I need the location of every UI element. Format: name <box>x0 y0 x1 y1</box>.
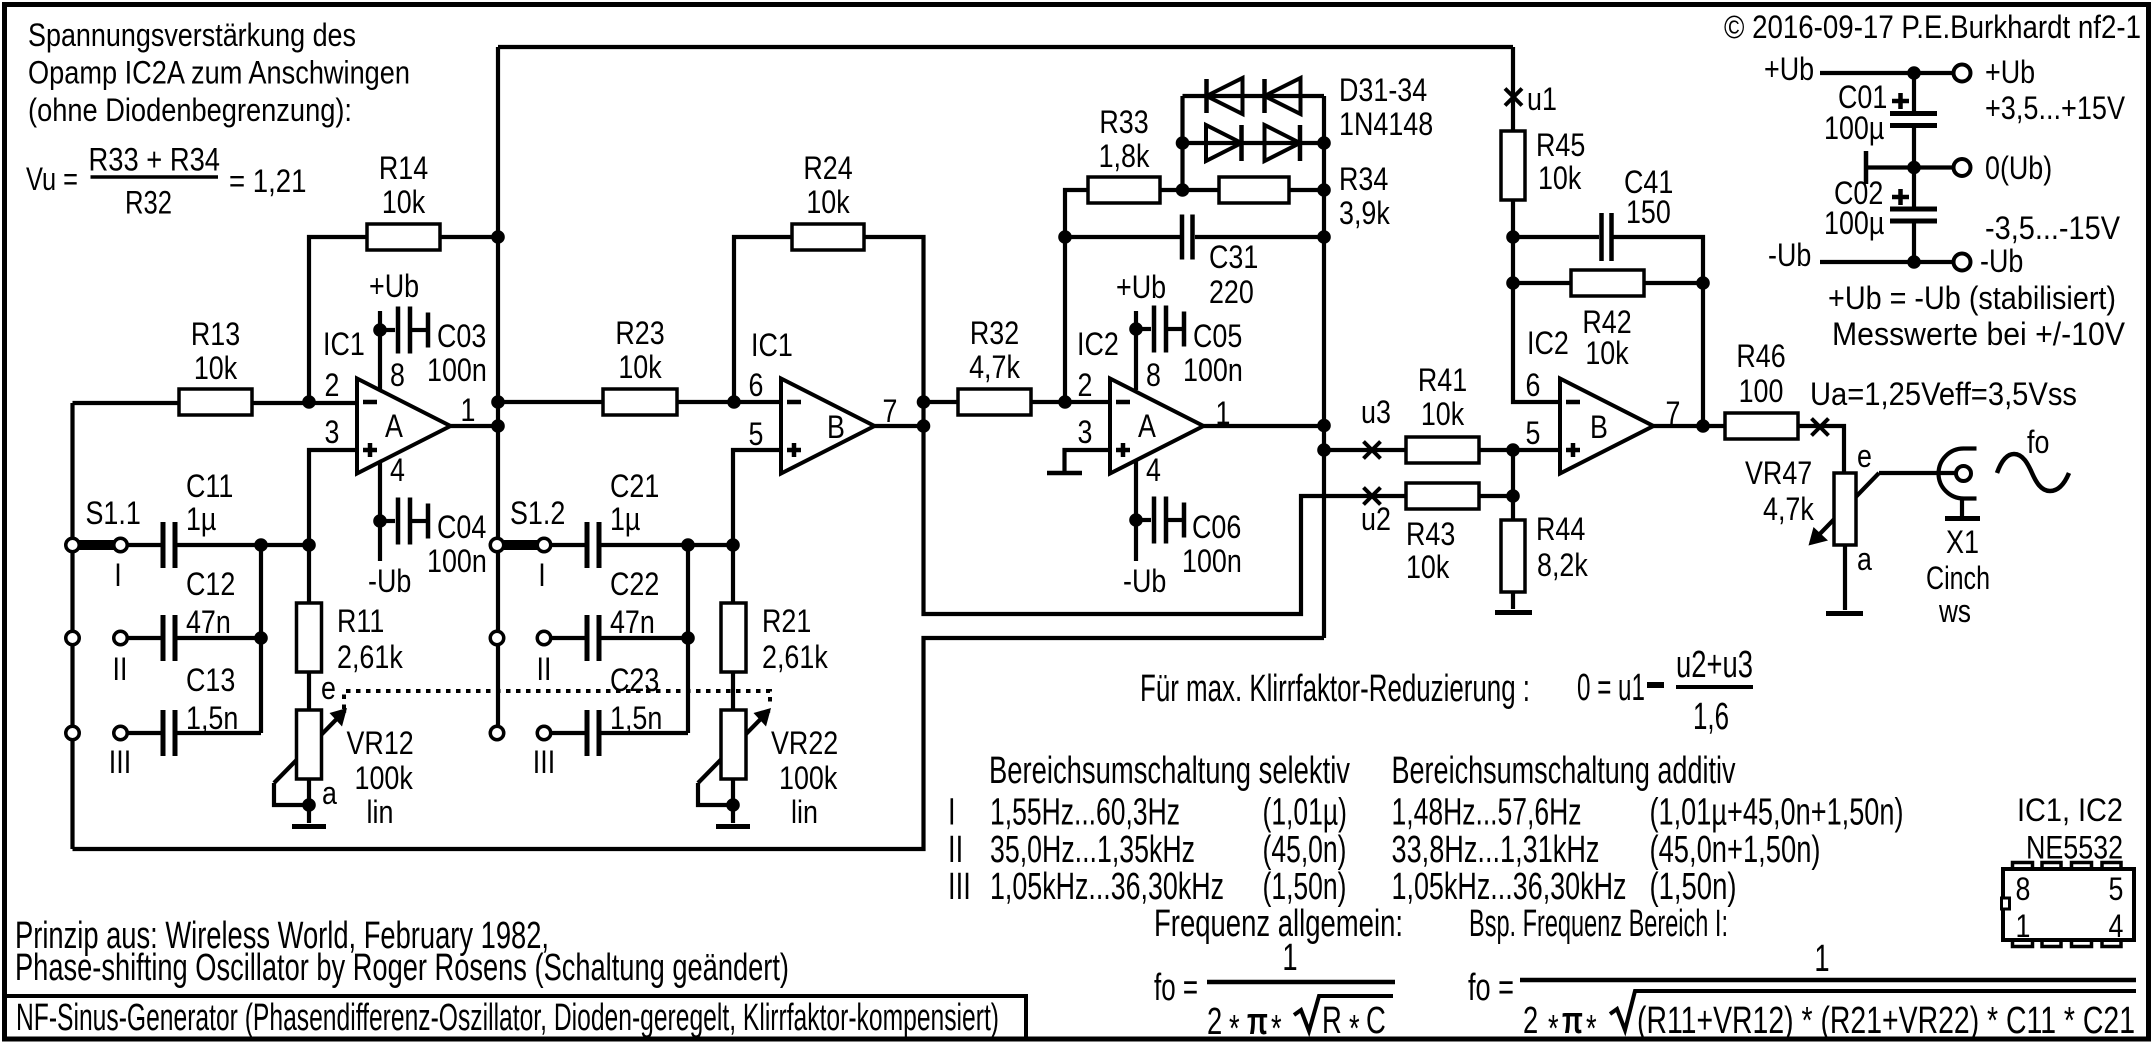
svg-text:fo =: fo = <box>1154 967 1198 1009</box>
svg-text:R46: R46 <box>1736 338 1785 374</box>
svg-text:Bereichsumschaltung selektiv: Bereichsumschaltung selektiv <box>989 750 1350 792</box>
svg-text:-Ub: -Ub <box>368 563 411 599</box>
svg-text:VR22: VR22 <box>771 725 838 761</box>
svg-text:π: π <box>1247 1001 1268 1042</box>
svg-text:2: 2 <box>1207 1001 1222 1042</box>
svg-text:ws: ws <box>1938 593 1971 629</box>
svg-text:e: e <box>1857 438 1872 474</box>
svg-text:100n: 100n <box>1183 352 1243 388</box>
svg-text:III: III <box>109 744 131 780</box>
svg-text:1µ: 1µ <box>610 501 640 537</box>
svg-text:5: 5 <box>1526 415 1541 451</box>
svg-text:C05: C05 <box>1193 318 1242 354</box>
svg-text:C31: C31 <box>1209 239 1258 275</box>
svg-text:10k: 10k <box>382 184 426 220</box>
svg-text:R23: R23 <box>615 315 664 351</box>
svg-text:© 2016-09-17 P.E.Burkhardt nf2: © 2016-09-17 P.E.Burkhardt nf2-1 <box>1724 9 2141 45</box>
svg-text:1: 1 <box>1216 395 1231 431</box>
svg-text:R33: R33 <box>1099 104 1148 140</box>
svg-text:+Ub: +Ub <box>1764 51 1814 87</box>
svg-text:10k: 10k <box>806 184 850 220</box>
svg-text:1,6: 1,6 <box>1693 696 1729 738</box>
svg-text:R32: R32 <box>970 315 1019 351</box>
svg-text:(1,50n): (1,50n) <box>1650 866 1737 908</box>
svg-text:S1.2: S1.2 <box>510 495 565 531</box>
svg-text:R45: R45 <box>1536 127 1585 163</box>
svg-text:(45,0n+1,50n): (45,0n+1,50n) <box>1650 829 1821 871</box>
svg-text:8: 8 <box>1146 357 1161 393</box>
svg-text:*: * <box>1586 1008 1597 1042</box>
svg-text:2: 2 <box>1523 1000 1538 1042</box>
svg-text:1: 1 <box>1282 937 1297 979</box>
svg-text:(1,01µ+45,0n+1,50n): (1,01µ+45,0n+1,50n) <box>1650 792 1904 834</box>
svg-text:8,2k: 8,2k <box>1537 547 1589 583</box>
svg-text:2: 2 <box>325 367 340 403</box>
svg-text:5: 5 <box>2109 871 2124 907</box>
svg-text:(1,50n): (1,50n) <box>1263 866 1347 908</box>
svg-text:Bsp. Frequenz Bereich I:: Bsp. Frequenz Bereich I: <box>1469 903 1728 945</box>
svg-text:1: 1 <box>461 392 476 428</box>
svg-text:C04: C04 <box>437 509 486 545</box>
svg-text:3: 3 <box>1078 414 1093 450</box>
svg-text:-Ub: -Ub <box>1980 243 2023 279</box>
svg-text:u2+u3: u2+u3 <box>1676 644 1753 686</box>
svg-text:R11: R11 <box>337 603 384 639</box>
svg-text:1,05kHz...36,30kHz: 1,05kHz...36,30kHz <box>990 866 1224 908</box>
svg-text:C13: C13 <box>186 662 235 698</box>
svg-text:fo: fo <box>2027 424 2049 460</box>
svg-text:47n: 47n <box>186 604 231 640</box>
svg-text:1N4148: 1N4148 <box>1339 106 1433 142</box>
svg-text:C11: C11 <box>186 468 233 504</box>
svg-text:-Ub: -Ub <box>1768 237 1811 273</box>
svg-text:1: 1 <box>2016 908 2031 944</box>
svg-text:6: 6 <box>1526 367 1541 403</box>
svg-text:VR47: VR47 <box>1745 455 1812 491</box>
svg-text:VR12: VR12 <box>347 725 414 761</box>
svg-text:fo =: fo = <box>1468 967 1514 1009</box>
svg-text:u3: u3 <box>1361 394 1391 430</box>
svg-text:(1,01µ): (1,01µ) <box>1263 792 1348 834</box>
svg-text:R34: R34 <box>1339 161 1388 197</box>
svg-text:R21: R21 <box>762 603 811 639</box>
svg-text:S1.1: S1.1 <box>86 495 141 531</box>
svg-text:*: * <box>1271 1008 1282 1042</box>
svg-text:R41: R41 <box>1418 362 1467 398</box>
svg-text:Cinch: Cinch <box>1926 560 1990 596</box>
svg-text:1,55Hz...60,3Hz: 1,55Hz...60,3Hz <box>990 792 1180 834</box>
svg-text:10k: 10k <box>618 349 662 385</box>
svg-text:π: π <box>1562 1000 1583 1042</box>
svg-text:Messwerte bei +/-10V: Messwerte bei +/-10V <box>1832 316 2126 352</box>
svg-text:10k: 10k <box>1585 335 1629 371</box>
svg-text:I: I <box>948 792 956 834</box>
svg-text:+Ub: +Ub <box>1985 54 2035 90</box>
svg-text:4,7k: 4,7k <box>1763 491 1815 527</box>
svg-text:4: 4 <box>1146 452 1161 488</box>
svg-text:A: A <box>385 408 403 444</box>
svg-text:III: III <box>533 744 555 780</box>
svg-text:+3,5...+15V: +3,5...+15V <box>1985 90 2126 126</box>
svg-text:C22: C22 <box>610 566 659 602</box>
svg-text:3: 3 <box>325 414 340 450</box>
svg-text:R33 + R34: R33 + R34 <box>89 142 221 178</box>
svg-text:100µ: 100µ <box>1824 205 1884 241</box>
svg-text:0 = u1: 0 = u1 <box>1577 667 1645 709</box>
svg-text:III: III <box>948 866 971 908</box>
svg-text:C06: C06 <box>1192 509 1241 545</box>
svg-text:Opamp IC2A zum Anschwingen: Opamp IC2A zum Anschwingen <box>28 55 410 91</box>
svg-text:B: B <box>1590 409 1608 445</box>
svg-text:Spannungsverstärkung des: Spannungsverstärkung des <box>28 17 356 53</box>
svg-text:10k: 10k <box>1421 396 1465 432</box>
svg-text:A: A <box>1138 408 1156 444</box>
svg-text:1,5n: 1,5n <box>186 700 238 736</box>
svg-text:10k: 10k <box>194 350 238 386</box>
svg-text:100n: 100n <box>1182 543 1242 579</box>
svg-text:1,8k: 1,8k <box>1099 138 1151 174</box>
svg-text:a: a <box>1857 541 1872 577</box>
svg-text:1: 1 <box>1814 938 1829 980</box>
svg-text:3,9k: 3,9k <box>1339 195 1391 231</box>
svg-text:C21: C21 <box>610 468 659 504</box>
svg-text:10k: 10k <box>1406 549 1450 585</box>
svg-text:4,7k: 4,7k <box>969 349 1021 385</box>
svg-text:100k: 100k <box>779 760 838 796</box>
svg-text:R24: R24 <box>803 150 852 186</box>
svg-text:IC1: IC1 <box>751 327 793 363</box>
svg-text:R13: R13 <box>191 316 240 352</box>
svg-text:C23: C23 <box>610 662 659 698</box>
svg-text:I: I <box>538 557 546 593</box>
svg-text:*: * <box>1229 1008 1240 1042</box>
svg-text:150: 150 <box>1626 194 1671 230</box>
svg-text:2,61k: 2,61k <box>337 639 404 675</box>
svg-text:1,5n: 1,5n <box>610 700 662 736</box>
svg-text:IC1, IC2: IC1, IC2 <box>2017 792 2123 828</box>
svg-text:1,05kHz...36,30kHz: 1,05kHz...36,30kHz <box>1392 866 1627 908</box>
svg-text:35,0Hz...1,35kHz: 35,0Hz...1,35kHz <box>990 829 1195 871</box>
svg-text:II: II <box>113 651 128 687</box>
svg-text:Ua=1,25Veff=3,5Vss: Ua=1,25Veff=3,5Vss <box>1810 376 2077 412</box>
svg-text:8: 8 <box>2016 871 2031 907</box>
svg-text:+Ub = -Ub (stabilisiert): +Ub = -Ub (stabilisiert) <box>1828 280 2116 316</box>
svg-text:-3,5...-15V: -3,5...-15V <box>1985 210 2121 246</box>
svg-text:7: 7 <box>1666 395 1681 431</box>
svg-text:33,8Hz...1,31kHz: 33,8Hz...1,31kHz <box>1392 829 1600 871</box>
svg-text:Phase-shifting Oscillator by R: Phase-shifting Oscillator by Roger Rosen… <box>15 947 789 989</box>
svg-text:II: II <box>948 829 963 871</box>
svg-text:100n: 100n <box>427 352 487 388</box>
svg-text:1µ: 1µ <box>186 501 216 537</box>
svg-text:0(Ub): 0(Ub) <box>1985 150 2052 186</box>
svg-text:I: I <box>114 557 122 593</box>
svg-text:*: * <box>1349 1008 1360 1042</box>
svg-text:lin: lin <box>791 794 818 830</box>
svg-text:7: 7 <box>883 393 898 429</box>
svg-text:NF-Sinus-Generator (Phasendiff: NF-Sinus-Generator (Phasendifferenz-Oszi… <box>16 997 999 1039</box>
svg-text:Vu =: Vu = <box>26 161 78 197</box>
svg-text:IC2: IC2 <box>1527 325 1569 361</box>
svg-text:D31-34: D31-34 <box>1339 72 1427 108</box>
svg-text:R44: R44 <box>1536 511 1585 547</box>
svg-text:2,61k: 2,61k <box>762 639 829 675</box>
svg-text:NE5532: NE5532 <box>2026 830 2123 866</box>
svg-text:4: 4 <box>390 452 405 488</box>
svg-text:100n: 100n <box>427 543 487 579</box>
svg-text:R32: R32 <box>125 185 172 221</box>
svg-text:lin: lin <box>367 794 394 830</box>
svg-text:8: 8 <box>390 357 405 393</box>
svg-text:X1: X1 <box>1946 524 1979 560</box>
svg-text:IC1: IC1 <box>323 326 365 362</box>
svg-text:2: 2 <box>1078 367 1093 403</box>
svg-text:Bereichsumschaltung additiv: Bereichsumschaltung additiv <box>1392 750 1736 792</box>
svg-text:47n: 47n <box>610 604 655 640</box>
svg-text:10k: 10k <box>1538 160 1582 196</box>
svg-text:IC2: IC2 <box>1077 326 1119 362</box>
svg-text:220: 220 <box>1209 274 1254 310</box>
svg-text:5: 5 <box>749 416 764 452</box>
svg-text:C03: C03 <box>437 318 486 354</box>
svg-text:II: II <box>537 651 552 687</box>
svg-text:(ohne Diodenbegrenzung):: (ohne Diodenbegrenzung): <box>28 92 352 128</box>
svg-text:(45,0n): (45,0n) <box>1263 829 1347 871</box>
svg-text:C12: C12 <box>186 566 235 602</box>
svg-text:6: 6 <box>749 367 764 403</box>
svg-text:B: B <box>827 409 845 445</box>
svg-text:*: * <box>1548 1008 1559 1042</box>
svg-text:R14: R14 <box>379 150 428 186</box>
svg-text:100k: 100k <box>355 760 414 796</box>
svg-text:100: 100 <box>1739 373 1784 409</box>
svg-text:C: C <box>1366 1000 1386 1042</box>
svg-text:(R11+VR12) * (R21+VR22) * C11: (R11+VR12) * (R21+VR22) * C11 * C21 <box>1637 1000 2135 1042</box>
svg-text:R: R <box>1322 1000 1342 1042</box>
svg-text:R43: R43 <box>1406 516 1455 552</box>
svg-text:100µ: 100µ <box>1824 110 1884 146</box>
svg-text:+Ub: +Ub <box>369 268 419 304</box>
svg-text:u2: u2 <box>1361 501 1391 537</box>
svg-text:Für max. Klirrfaktor-Reduzieru: Für max. Klirrfaktor-Reduzierung : <box>1140 668 1530 710</box>
svg-text:= 1,21: = 1,21 <box>229 163 307 199</box>
svg-text:4: 4 <box>2109 908 2124 944</box>
svg-text:Frequenz allgemein:: Frequenz allgemein: <box>1154 903 1403 945</box>
svg-text:u1: u1 <box>1527 81 1557 117</box>
svg-text:-Ub: -Ub <box>1123 563 1166 599</box>
svg-text:e: e <box>321 670 336 706</box>
svg-text:+Ub: +Ub <box>1116 269 1166 305</box>
svg-text:1,48Hz...57,6Hz: 1,48Hz...57,6Hz <box>1392 792 1582 834</box>
svg-text:a: a <box>322 775 337 811</box>
